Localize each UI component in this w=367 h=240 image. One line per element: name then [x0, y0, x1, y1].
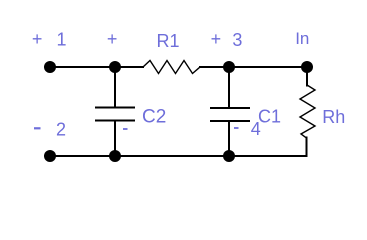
svg-text:R1: R1	[157, 31, 180, 51]
svg-text:Rh: Rh	[322, 107, 345, 127]
svg-text:In: In	[295, 29, 309, 48]
svg-text:C2: C2	[142, 107, 166, 128]
svg-text:1: 1	[57, 30, 67, 50]
svg-text:+: +	[32, 29, 43, 49]
svg-text:C1: C1	[258, 107, 281, 127]
svg-text:2: 2	[56, 120, 66, 140]
svg-text:+: +	[211, 29, 222, 49]
svg-text:3: 3	[232, 30, 242, 50]
svg-text:+: +	[107, 29, 118, 49]
